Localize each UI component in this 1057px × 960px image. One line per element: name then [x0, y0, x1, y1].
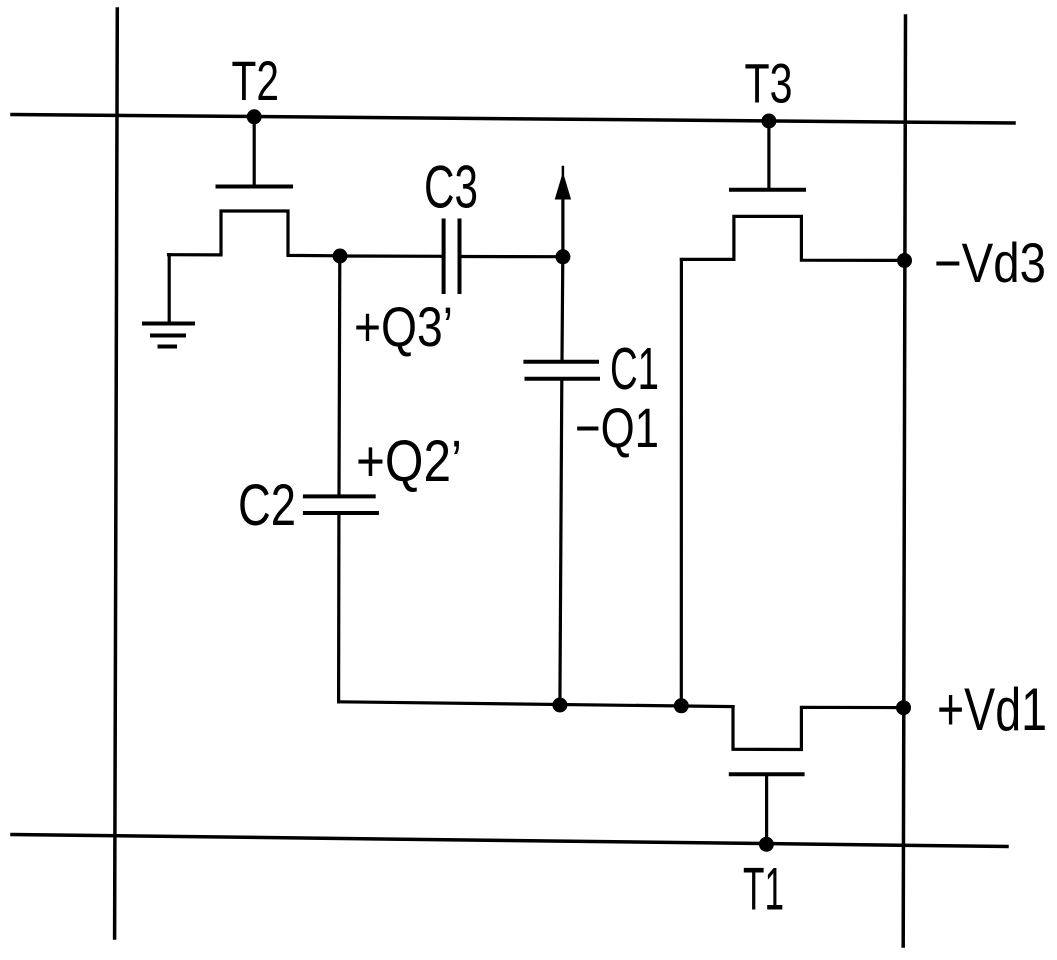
wire: right vertical data line [903, 16, 905, 946]
wire: bottom horizontal gate line (T1 row) [12, 835, 1007, 847]
svg-text:T3: T3 [745, 52, 793, 115]
wire: C3 right plate to arrow node [462, 255, 558, 258]
svg-text:C3: C3 [424, 154, 478, 221]
wire: +Q3' node down to C2 top plate [337, 256, 341, 494]
wire: bottom inner node wire [339, 702, 733, 707]
wire: C1 bottom plate down to bottom node wire [560, 381, 562, 705]
transistor T2 channel electrode [169, 211, 341, 256]
svg-text:−Q1: −Q1 [575, 396, 659, 459]
svg-text:+Q3’: +Q3’ [354, 295, 453, 358]
transistor T3 gate lead [767, 121, 770, 187]
svg-text:+Vd1: +Vd1 [937, 676, 1047, 743]
transistor T2 gate lead [253, 117, 256, 184]
transistor T3 gate bar [731, 188, 804, 192]
wire: C2 bottom plate down to bottom node wire [337, 515, 340, 702]
capacitor C2 bottom plate [305, 511, 377, 515]
capacitor C1 bottom plate [527, 377, 599, 381]
transistor T2 gate junction dot [247, 109, 262, 124]
wire: arrow node down to C1 top plate [560, 257, 564, 360]
transistor T1 gate bar [731, 772, 803, 776]
ground symbol [144, 322, 193, 326]
node dot T3 electrode bottom [674, 698, 689, 713]
node -Vd3 dot [897, 253, 912, 268]
wire: node to C3 left plate [340, 254, 442, 257]
capacitor C3 right plate [458, 221, 462, 293]
svg-text:−Vd3: −Vd3 [934, 231, 1046, 294]
node +Q3' junction dot [333, 249, 348, 264]
capacitor C1 top plate [525, 360, 597, 364]
arrow head [555, 172, 571, 200]
wire: left vertical select line [115, 9, 118, 938]
svg-text:T1: T1 [743, 856, 784, 923]
transistor T3 channel electrode [681, 216, 902, 260]
node +Vd1 dot [896, 700, 911, 715]
node arrow junction dot [555, 249, 570, 264]
transistor T1 channel electrode [733, 707, 899, 750]
node dot C1 bottom [552, 698, 567, 713]
transistor T1 gate lead [765, 774, 768, 843]
svg-text:C2: C2 [238, 473, 296, 538]
transistor T2 gate bar [218, 185, 292, 189]
wire: T3 left electrode vertical [680, 260, 683, 706]
transistor T3 gate junction dot [761, 114, 776, 129]
wire: arrow shaft [561, 196, 564, 257]
capacitor C3 left plate [442, 221, 446, 293]
svg-text:C1: C1 [610, 336, 659, 402]
svg-text:+Q2’: +Q2’ [356, 429, 462, 494]
wire: T2 source lead down to ground [168, 255, 171, 322]
capacitor C2 top plate [305, 494, 374, 498]
wire: top horizontal gate line (T2/T3 row) [12, 115, 1014, 124]
transistor T1 gate junction dot [759, 837, 774, 852]
svg-text:T2: T2 [232, 49, 280, 112]
